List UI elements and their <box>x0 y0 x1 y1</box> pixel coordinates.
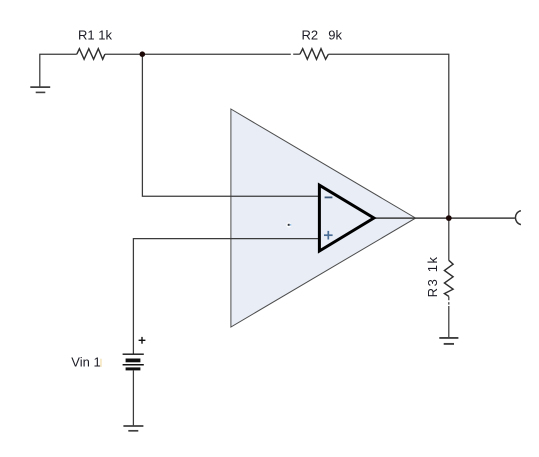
svg-text:R3 1k: R3 1k <box>425 255 440 297</box>
svg-text:Vin 1: Vin 1 <box>71 355 100 370</box>
svg-text:R2: R2 <box>302 28 319 43</box>
svg-text:9k: 9k <box>328 28 342 43</box>
svg-text:R1 1k: R1 1k <box>78 28 112 43</box>
